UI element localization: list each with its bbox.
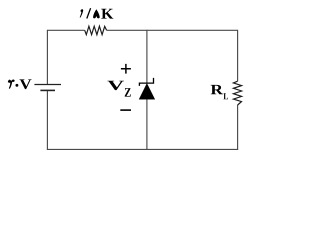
value label Persian digit 5 (93, 9, 100, 18)
wire left vertical lower (46, 90, 48, 149)
wire right vertical upper (237, 30, 239, 81)
label Vz letter V (107, 81, 123, 90)
wire top-left horizontal segment (47, 29, 84, 31)
label RL letter R (211, 85, 223, 94)
zener diode triangle (filled) (139, 84, 155, 100)
resistor RL zigzag (load, right) (233, 81, 241, 105)
wire middle vertical lower (146, 99, 148, 150)
source label Persian digit 2 (8, 79, 15, 88)
value label Persian digit 1 (80, 9, 83, 17)
value label letter K (101, 9, 113, 19)
wire middle vertical upper (146, 30, 148, 83)
source label letter V (19, 79, 31, 89)
minus sign below Vz (120, 109, 131, 111)
zener diode cathode bar with bent ends (139, 78, 153, 86)
wire right vertical lower (237, 105, 239, 150)
plus sign above Vz (121, 64, 131, 74)
label Vz subscript Z (125, 88, 131, 97)
value label decimal slash (87, 8, 91, 18)
wire left vertical upper (46, 30, 48, 85)
wire bottom horizontal (47, 148, 238, 150)
resistor 1.5K zigzag (series, top) (85, 26, 107, 35)
label RL subscript L (223, 93, 228, 99)
wire top-right horizontal segment (107, 29, 238, 31)
battery 20V top (long) plate (34, 84, 61, 86)
battery bottom (short) plate (40, 89, 55, 91)
source label Persian zero (dot) (15, 84, 18, 87)
